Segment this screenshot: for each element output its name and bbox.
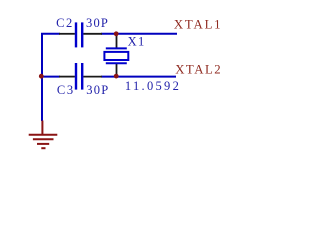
svg-text:XTAL1: XTAL1 xyxy=(174,18,223,32)
junction bottom (X1 / XTAL2) xyxy=(114,74,119,79)
svg-text:XTAL2: XTAL2 xyxy=(175,63,222,77)
wire left vertical (top corner to ground) xyxy=(42,34,60,121)
wire top XTAL1 net (junction to terminal) xyxy=(101,33,177,35)
wire bottom XTAL2 net right segment xyxy=(101,76,176,78)
ground xyxy=(29,121,58,149)
svg-text:C3: C3 xyxy=(57,83,75,97)
svg-text:X1: X1 xyxy=(128,34,146,48)
junction top (X1 / XTAL1) xyxy=(114,31,119,36)
svg-text:11.0592: 11.0592 xyxy=(125,79,181,93)
crystal X1 xyxy=(104,35,128,77)
capacitor C2 xyxy=(59,22,102,47)
wire bottom XTAL2 net left segment xyxy=(42,76,60,78)
svg-text:30P: 30P xyxy=(86,16,109,30)
capacitor C3 xyxy=(59,63,102,90)
svg-text:C2: C2 xyxy=(56,16,74,30)
svg-text:30P: 30P xyxy=(86,83,109,97)
junction left (C3 / ground) xyxy=(39,74,44,79)
